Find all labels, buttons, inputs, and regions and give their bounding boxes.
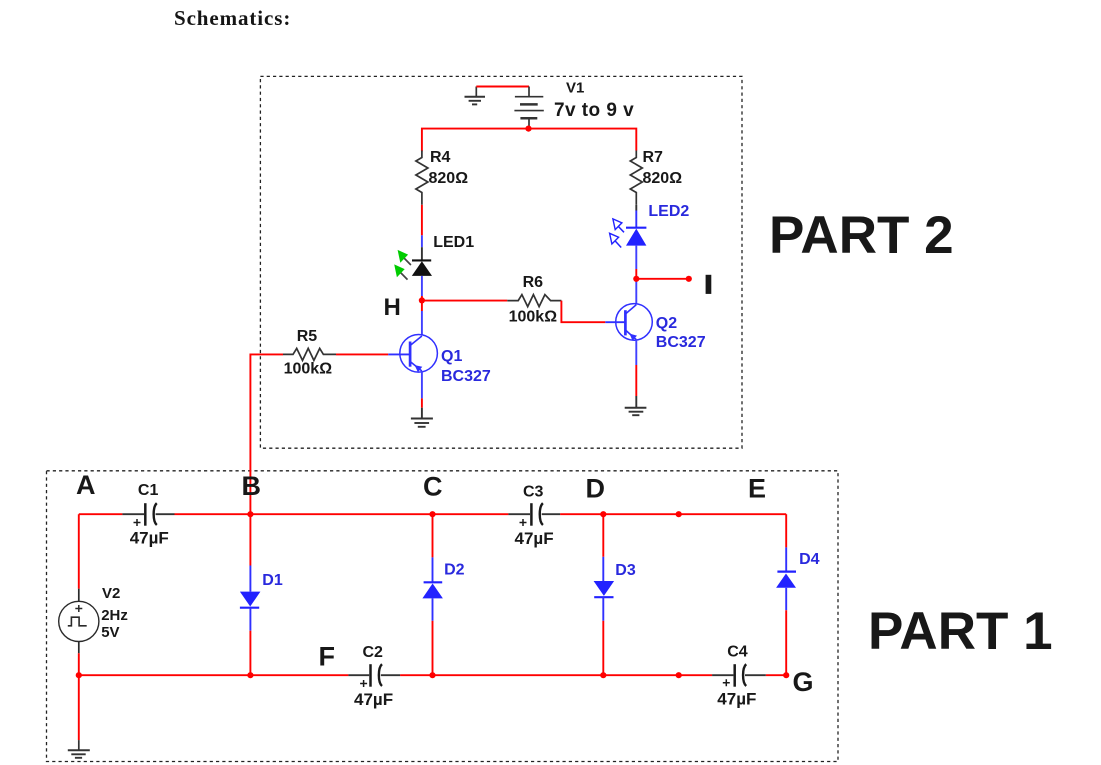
wire node C to D2 [432,514,434,582]
junction node D top rail [600,511,606,517]
wire R7 to LED2 [635,205,637,228]
wire D2 to bottom rail [432,598,434,675]
label I [706,275,712,294]
svg-text:R5: R5 [297,328,318,345]
junction node B top rail [247,511,253,517]
svg-text:C4: C4 [727,644,748,661]
PART 1 box [47,471,839,762]
wire PART1 bottom rail C4 to G [766,674,786,676]
svg-text:A: A [76,470,96,500]
svg-text:47µF: 47µF [717,690,756,709]
junction top rail D-E [676,511,682,517]
svg-text:47µF: 47µF [354,690,393,709]
wire node E corner to D4 [785,514,787,571]
svg-text:D2: D2 [444,562,465,579]
svg-text:V2: V2 [102,585,120,602]
capacitor C4 [712,664,766,687]
junction node D bottom rail [600,672,606,678]
resistor R4 [416,151,428,205]
wire V2 to bottom rail [78,653,80,675]
svg-text:LED2: LED2 [648,203,689,220]
voltage source V2 [59,589,99,654]
wire Q1 collector to ground [421,371,423,419]
svg-text:Q1: Q1 [441,348,462,365]
wire PART1 top rail C1 to C3 [175,513,509,515]
wire bottom rail to ground [78,675,80,740]
resistor R5 [283,348,336,360]
svg-text:BC327: BC327 [656,334,706,351]
svg-text:E: E [748,474,766,504]
node I stub end [686,276,692,282]
svg-text:C2: C2 [363,644,384,661]
resistor R7 [630,151,642,205]
ground (Q1) [411,419,433,427]
wire D4 to node G [785,588,787,675]
svg-text:R7: R7 [643,149,664,166]
wire ground to battery top [476,86,529,88]
svg-text:LED1: LED1 [433,234,474,251]
ground (Q2) [625,408,647,415]
svg-text:7v to 9 v: 7v to 9 v [554,100,634,121]
capacitor C3 [508,503,560,526]
junction node G [783,672,789,678]
junction bottom rail D-G [676,672,682,678]
svg-text:C1: C1 [138,482,159,499]
svg-text:47µF: 47µF [515,529,554,548]
wire D1 to bottom rail [249,608,251,676]
svg-text:B: B [242,471,262,501]
diode D2 [422,582,443,598]
junction node C bottom rail [429,672,435,678]
svg-text:D3: D3 [615,562,636,579]
transistor Q1 [388,335,437,373]
wire Q2 collector to ground [635,340,637,408]
wire V+ top rail of PART 2 [422,129,636,152]
svg-text:Schematics:: Schematics: [174,6,291,30]
svg-text:R6: R6 [523,274,544,291]
svg-text:820Ω: 820Ω [643,170,683,187]
wire LED1 to node H to Q1 [421,276,423,335]
svg-text:D: D [586,474,606,504]
wire node I stub [636,278,689,280]
transistor Q2 [605,304,652,341]
svg-text:C: C [423,472,443,502]
svg-text:5V: 5V [101,624,119,641]
PART 2 box [260,76,742,448]
wire R4 to LED1 [421,205,423,261]
junction node C top rail [429,511,435,517]
node H junction [419,297,425,303]
wire LED2 to node I to Q2 [635,246,637,304]
svg-text:G: G [793,667,814,697]
svg-text:2Hz: 2Hz [101,607,128,624]
wire PART1 bottom rail A to C2 [79,674,349,676]
junction battery to rail [525,126,531,132]
ground (V2) [68,740,90,758]
wire R5 to Q1 base [336,353,388,355]
wire left column A to V2 [78,514,80,589]
wire D3 to bottom rail [602,597,604,675]
wire node D to D3 [602,514,604,581]
junction V2 bottom rail [76,672,82,678]
diode D3 [594,581,615,597]
svg-text:D1: D1 [262,572,283,589]
svg-text:BC327: BC327 [441,368,491,385]
diode D4 [776,572,796,588]
svg-text:Q2: Q2 [656,315,677,332]
junction node B bottom rail [247,672,253,678]
LED2 [610,219,647,248]
svg-text:D4: D4 [799,551,820,568]
battery V1 [514,87,543,129]
capacitor C1 [122,503,174,526]
wire PART1 top rail A to C1 [79,513,123,515]
wire R6 to Q2 base [561,301,605,323]
svg-text:100kΩ: 100kΩ [509,309,558,326]
svg-text:820Ω: 820Ω [429,170,469,187]
svg-text:100kΩ: 100kΩ [284,361,333,378]
wire node H to R6 [422,300,507,302]
wire PART1 top rail C3 to E corner [560,513,786,515]
svg-text:PART 1: PART 1 [868,602,1053,661]
diode D1 [240,592,261,608]
svg-text:R4: R4 [430,149,451,166]
capacitor C2 [348,664,400,687]
resistor R6 [507,295,561,307]
wire R5 to node B riser [250,354,283,514]
svg-text:V1: V1 [566,80,584,97]
svg-text:47µF: 47µF [130,529,169,548]
svg-text:H: H [384,294,401,321]
svg-text:PART 2: PART 2 [769,206,954,265]
svg-text:F: F [319,642,336,672]
ground (battery V1) [465,87,486,105]
LED1 [394,250,432,280]
wire PART1 bottom rail C2 to C4 [400,674,712,676]
wire node B to D1 [249,514,251,591]
node I junction [633,276,639,282]
svg-text:C3: C3 [523,484,544,501]
